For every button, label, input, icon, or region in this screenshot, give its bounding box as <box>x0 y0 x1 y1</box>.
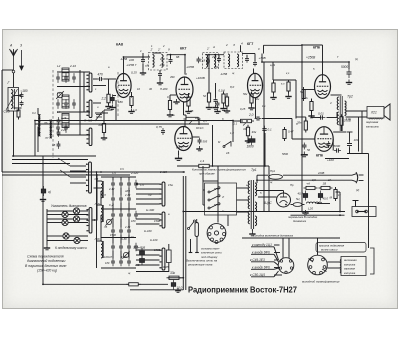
R8 wiper arrow <box>189 121 192 124</box>
svg-text:АЗ0: АЗ0 <box>124 189 130 193</box>
wire <box>226 93 228 97</box>
svg-text:5000: 5000 <box>341 65 348 69</box>
svg-text:3В: 3В <box>190 109 193 113</box>
wire osc link <box>112 251 114 259</box>
svg-text:С-Д: С-Д <box>109 203 114 207</box>
junction <box>256 179 258 181</box>
socket pin <box>220 238 223 241</box>
wire osc mid bus <box>101 208 136 210</box>
wire cap 0.05 bottom <box>168 263 170 273</box>
svg-text:150В: 150В <box>154 248 160 252</box>
wire R20 to bus <box>168 277 183 279</box>
resistor R15 <box>302 87 305 101</box>
wire R8 net down <box>212 125 214 166</box>
wire antenna branch down <box>13 120 15 156</box>
svg-text:Пр: Пр <box>290 183 294 187</box>
svg-text:Схема переключателя: Схема переключателя <box>27 255 64 259</box>
bottom wire mid <box>139 283 169 285</box>
wire IFT2 to rail <box>240 45 242 52</box>
resistor R2 2.2M <box>107 92 110 106</box>
resistor R10 <box>225 95 228 109</box>
capacitor (osc) <box>127 227 131 236</box>
wire coil chain <box>100 191 102 205</box>
svg-text:0,05: 0,05 <box>163 265 169 269</box>
filter choke L20 <box>307 202 322 204</box>
resistor R17 3.9k <box>340 114 343 128</box>
svg-text:6С1С: 6С1С <box>196 126 205 130</box>
antenna mast tip <box>13 49 15 56</box>
capacitor C16 <box>198 138 202 145</box>
wire label leader <box>251 261 274 263</box>
svg-text:-125В Г: -125В Г <box>126 63 137 67</box>
capacitor (osc) <box>119 180 123 189</box>
svg-text:50к: 50к <box>243 92 248 96</box>
ground C26 <box>301 152 308 157</box>
svg-text:56: 56 <box>307 148 310 152</box>
coil Л7 left <box>50 120 52 138</box>
svg-text:50х: 50х <box>255 97 260 101</box>
wire C12 top <box>170 55 172 59</box>
tone switch contact <box>223 141 231 148</box>
wire label rule <box>242 237 340 239</box>
svg-text:2: 2 <box>185 72 188 76</box>
wire coil block right <box>79 70 81 135</box>
svg-text:Тр2: Тр2 <box>347 95 353 99</box>
wire lamp return <box>80 210 88 212</box>
svg-text:а): а) <box>48 190 51 194</box>
wire <box>251 229 253 231</box>
mains wire upper <box>257 174 268 176</box>
junction <box>42 283 44 285</box>
capacitor (osc) <box>127 243 131 252</box>
Л14 core <box>102 181 104 198</box>
svg-text:З: З <box>233 43 235 47</box>
junction <box>208 54 210 56</box>
wire to wafer S2a <box>136 188 160 190</box>
svg-text:2-10: 2-10 <box>69 64 76 68</box>
resistor R9 1.4 <box>196 164 212 167</box>
wire osc cap top feed <box>112 177 114 180</box>
speaker connector plug <box>278 258 294 274</box>
svg-text:х90: х90 <box>213 65 219 69</box>
tuning gang dashed link <box>52 70 54 158</box>
lamp selector switch bar <box>86 208 92 234</box>
long bottom bus wire <box>183 211 345 213</box>
wire leader to connector <box>274 254 279 262</box>
voltage selector box <box>205 183 237 215</box>
svg-text:40,0: 40,0 <box>298 192 304 196</box>
resistor R11 <box>250 92 253 106</box>
svg-text:А: А <box>212 45 215 49</box>
R13 wiper arrow <box>243 123 246 126</box>
wire <box>202 172 204 181</box>
capacitor C5 <box>56 99 60 109</box>
wire leader to connector <box>274 271 279 277</box>
wire V1 cathode <box>131 92 133 98</box>
wire R8 to V3 <box>184 121 186 127</box>
wire switch stub b <box>93 85 106 87</box>
capacitor C28 100 <box>347 141 352 149</box>
capacitor C16b <box>197 57 201 64</box>
junction <box>34 120 36 122</box>
ground C20 <box>214 109 220 114</box>
wire <box>265 165 269 167</box>
svg-text:6П6: 6П6 <box>316 154 323 158</box>
wire leader to connector <box>274 268 279 269</box>
resistor R14 <box>246 125 249 139</box>
IFT2 secondary winding <box>237 54 239 67</box>
junction <box>301 44 303 46</box>
bottom bus wire second <box>291 214 345 216</box>
svg-text:5а: 5а <box>300 90 303 94</box>
wire V5 cathode <box>311 99 313 102</box>
ground R7 <box>206 105 212 110</box>
wire <box>218 54 220 56</box>
svg-text:0,1: 0,1 <box>167 95 171 99</box>
mains wire lower <box>257 179 352 181</box>
wire osc link <box>112 203 114 212</box>
capacitor (osc) <box>111 227 115 236</box>
wire <box>322 45 324 62</box>
svg-text:100: 100 <box>129 58 134 62</box>
svg-text:2А: 2А <box>327 178 331 182</box>
wire connector lead <box>274 259 279 261</box>
junction <box>182 211 184 213</box>
svg-text:СЧ: СЧ <box>120 167 124 171</box>
svg-text:0,47: 0,47 <box>288 130 294 134</box>
coil L9 <box>214 55 216 68</box>
svg-text:150В: 150В <box>154 219 160 223</box>
ground R12b <box>285 94 291 99</box>
wire label leader <box>251 246 274 248</box>
socket pin <box>221 226 224 229</box>
wire to R13 <box>233 120 243 122</box>
wire osc link <box>112 219 114 228</box>
Tr1 primary section 1 <box>248 181 250 194</box>
band switch wafer S1c <box>86 128 92 146</box>
svg-text:Указатель диапазонов: Указатель диапазонов <box>51 204 87 208</box>
capacitor (osc) <box>111 195 115 204</box>
wire speaker drop a <box>358 117 360 152</box>
wire <box>291 119 293 140</box>
svg-text:Л5: Л5 <box>103 225 108 229</box>
connector pin 2 <box>322 258 325 261</box>
wire C18 top <box>246 55 248 58</box>
capacitor (osc) <box>127 180 131 189</box>
svg-text:Л7: Л7 <box>44 136 49 140</box>
wire <box>244 199 249 201</box>
Tr1 primary section 3 <box>248 211 250 224</box>
capacitor C41 <box>57 117 61 125</box>
ground R14 <box>245 138 251 143</box>
svg-text:0,5: 0,5 <box>312 178 316 182</box>
connector pin <box>285 271 287 273</box>
wire to wafer S2b <box>136 223 160 225</box>
wire screen drop <box>295 80 297 119</box>
ground V3 <box>175 155 182 161</box>
ground V2 leg <box>173 99 179 104</box>
C28 top stub <box>347 132 353 142</box>
svg-text:2и: 2и <box>304 96 308 100</box>
svg-text:6К7: 6К7 <box>180 47 187 51</box>
oscillator switch wafer S2b <box>159 212 165 228</box>
junction <box>96 171 98 173</box>
resistor R19 63k <box>126 283 141 286</box>
wire C22 down <box>264 133 266 150</box>
wire antenna to L1 <box>13 73 15 87</box>
svg-text:2,0: 2,0 <box>248 113 254 117</box>
svg-text:490: 490 <box>170 75 175 79</box>
top rail to V5 <box>302 44 323 46</box>
electrolytic capacitor C10 <box>111 94 115 103</box>
speaker Л21 field coil box <box>367 107 384 120</box>
capacitor C12 <box>169 57 173 64</box>
svg-text:1,0: 1,0 <box>230 131 234 135</box>
svg-text:-125В: -125В <box>220 72 227 76</box>
chassis tie <box>353 201 359 207</box>
svg-text:2-13: 2-13 <box>127 235 134 239</box>
resistor R24 <box>334 187 337 201</box>
junction <box>232 120 234 122</box>
socket pin <box>215 241 218 244</box>
capacitor C36 <box>20 92 24 99</box>
resistor R19b 0.47 <box>283 127 286 141</box>
ground C13 <box>157 80 163 85</box>
svg-text:х50: х50 <box>211 55 217 59</box>
svg-text:+100В: +100В <box>196 76 205 80</box>
socket pin <box>211 238 214 241</box>
svg-text:С1: С1 <box>32 111 36 115</box>
lamp panel left bus <box>46 209 48 245</box>
wire selector to Tr1 b <box>237 199 244 201</box>
svg-text:регуляторе тона: регуляторе тона <box>187 263 213 267</box>
arrow lamp switch <box>94 219 97 221</box>
diagonal wire a <box>58 158 70 166</box>
ground R3 <box>101 135 107 140</box>
coil L1 box <box>8 88 19 112</box>
wire screen rail to IFT2 <box>205 54 224 56</box>
dial lamp Л6 <box>74 237 80 243</box>
wire osc link <box>120 219 122 228</box>
tube V2 6К7 <box>176 77 193 102</box>
wire C28 bottom <box>349 148 351 154</box>
wire label leader <box>251 276 274 278</box>
antenna coupling contact <box>12 70 15 73</box>
wire C15 top <box>215 83 217 98</box>
wire switch stub d <box>95 112 108 114</box>
capacitor C18 <box>245 56 249 63</box>
selector contact 1 <box>208 187 220 193</box>
svg-text:1800: 1800 <box>247 145 254 149</box>
wire V1 plate to top rail <box>123 57 125 74</box>
capacitor C14 <box>206 58 210 65</box>
capacitor C17 <box>217 56 221 63</box>
capacitor C9 <box>97 77 104 81</box>
wire osc link <box>120 251 122 259</box>
wire <box>244 187 249 189</box>
svg-text:СВ5: СВ5 <box>4 110 10 114</box>
capacitor (osc) <box>127 195 131 204</box>
wire audio down <box>268 166 270 212</box>
wire rectifier out <box>291 204 294 206</box>
voltage selector socket <box>207 224 226 243</box>
svg-text:6Ж47: 6Ж47 <box>176 145 184 149</box>
capacitor C15 <box>214 97 218 104</box>
wire to wafer S2b <box>136 218 160 220</box>
wire C13 bottom <box>159 77 161 81</box>
band switch wafer S1d <box>86 162 92 193</box>
wire V5 plate to Tr2 <box>331 94 342 96</box>
ground Tr1 <box>249 231 255 236</box>
wire R2 top <box>108 79 110 94</box>
svg-text:2-120: 2-120 <box>159 170 167 174</box>
ground R2 <box>105 104 111 109</box>
oscillator coil Л16 <box>101 241 103 258</box>
junction <box>100 171 102 173</box>
junction <box>142 56 144 58</box>
fuse Пр1 <box>269 174 283 179</box>
svg-text:-105В: -105В <box>186 65 194 69</box>
resistor R18 35k <box>304 119 307 133</box>
wire to wafer S1d b <box>70 170 86 172</box>
junction <box>246 120 248 122</box>
wire connector lead <box>274 274 282 276</box>
wire lamp return <box>80 240 88 242</box>
wire IFT1 top link <box>153 52 162 54</box>
wire C11 down <box>142 64 144 70</box>
wire coil block top <box>57 71 90 73</box>
connector keys <box>309 259 327 272</box>
svg-text:33к: 33к <box>243 127 248 131</box>
svg-text:15м: 15м <box>168 183 173 187</box>
svg-text:3,9к: 3,9к <box>346 117 352 121</box>
svg-text:33к: 33к <box>170 271 176 275</box>
svg-text:Н-100: Н-100 <box>144 229 152 233</box>
connector pin 2 <box>320 271 323 274</box>
ground <box>40 197 46 202</box>
svg-text:8,0: 8,0 <box>230 85 235 89</box>
label box <box>316 243 366 253</box>
B+ top rail wire <box>264 44 303 46</box>
capacitor (osc) <box>119 258 123 267</box>
svg-text:2-19: 2-19 <box>60 116 67 120</box>
svg-text:звуковая: звуковая <box>343 268 356 271</box>
wire osc mid bus 2 <box>101 237 136 239</box>
band switch wafer S1a <box>86 73 92 92</box>
wire V3 to C16 <box>192 136 200 138</box>
capacitor C22 <box>262 126 266 134</box>
capacitor C29 5000 <box>334 148 341 152</box>
antenna symbol <box>10 49 18 56</box>
long bus wire y172 <box>2 171 185 173</box>
antenna lead <box>13 50 15 71</box>
wire speaker return <box>347 153 369 155</box>
resistor R5 <box>168 98 171 112</box>
wire osc link <box>128 188 130 196</box>
wire to wafer S1d d <box>70 182 86 184</box>
wire L1 bottom <box>13 111 15 120</box>
wire V2 to R8 <box>183 102 185 115</box>
svg-text:40,0: 40,0 <box>323 197 329 201</box>
capacitor C6 <box>64 99 68 109</box>
electrolytic capacitor C40 <box>41 186 46 196</box>
svg-text:2': 2' <box>157 48 161 52</box>
svg-text:(2): (2) <box>356 188 359 192</box>
wire to wafer S2a <box>136 203 160 205</box>
capacitor C3 <box>64 73 68 83</box>
wire right feed <box>339 192 341 212</box>
capacitor C13 <box>158 71 162 78</box>
connector pin 2 <box>323 266 326 269</box>
wire lamp feed <box>47 240 74 242</box>
svg-text:выходной трансформатор: выходной трансформатор <box>302 280 340 284</box>
coil L3 <box>62 95 69 108</box>
junction <box>301 61 303 63</box>
ground R6 <box>185 109 191 114</box>
svg-text:0,01: 0,01 <box>318 112 324 116</box>
wire <box>202 181 204 205</box>
wire lamp feed <box>47 222 62 224</box>
junction <box>42 163 44 165</box>
electrolytic capacitor C33 40.0 <box>318 191 322 201</box>
wire connector drop a <box>282 238 284 258</box>
svg-text:5и: 5и <box>172 113 175 117</box>
long left vertical bus <box>42 156 44 285</box>
svg-text:470: 470 <box>98 73 104 77</box>
wire <box>244 211 249 213</box>
capacitor C20 <box>216 101 220 108</box>
trimmer capacitor osc2 <box>122 251 129 258</box>
svg-text:5д: 5д <box>203 94 206 98</box>
output transformer connector <box>308 255 328 275</box>
wire C13 top <box>159 70 161 73</box>
wire R13 top <box>232 121 234 126</box>
wire <box>113 95 117 97</box>
svg-text:2': 2' <box>150 48 154 52</box>
wire to selector box <box>202 166 204 181</box>
socket pin <box>210 226 213 229</box>
wire V1 osc grid down <box>115 100 117 121</box>
wire lamp feed <box>47 218 73 220</box>
wire lamp feed <box>47 235 63 237</box>
wire Л6 bottom <box>37 127 39 153</box>
svg-text:180: 180 <box>131 219 136 223</box>
svg-text:2·13: 2·13 <box>124 193 131 197</box>
Tr1 filament winding 2 <box>255 216 257 226</box>
svg-text:2-12: 2-12 <box>108 187 115 191</box>
IF coil box L8/L9 <box>203 53 219 69</box>
wire avc <box>196 123 209 125</box>
resistor R20 33k <box>167 276 182 279</box>
junction <box>264 165 266 167</box>
svg-text:2-120: 2-120 <box>130 171 139 175</box>
tube V3 6Г7С <box>175 127 192 151</box>
electrolytic capacitor 20.0 <box>140 256 145 266</box>
bus wire <box>12 155 96 157</box>
capacitor C42 <box>57 129 61 137</box>
wire <box>272 62 274 80</box>
svg-text:+250В: +250В <box>306 56 316 60</box>
ground C16b <box>196 146 202 151</box>
wire R15 <box>303 90 305 99</box>
junction <box>261 61 263 63</box>
selector contact 2 <box>208 195 220 201</box>
wire C9 to tube V1 grid <box>104 78 116 80</box>
svg-text:L20: L20 <box>308 207 313 211</box>
electrolytic capacitor C23 <box>248 136 255 146</box>
connector pin 2 <box>313 271 316 274</box>
resistor R1 <box>17 108 20 120</box>
